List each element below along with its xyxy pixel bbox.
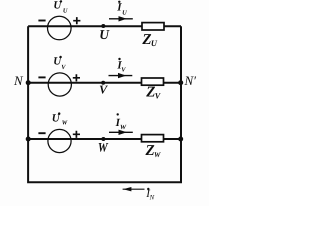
svg-text:N′: N′ bbox=[184, 73, 197, 88]
svg-text:U: U bbox=[151, 39, 158, 48]
svg-text:W: W bbox=[98, 140, 109, 155]
svg-text:W: W bbox=[154, 151, 161, 159]
svg-text:U: U bbox=[122, 10, 127, 17]
svg-text:V: V bbox=[99, 83, 108, 97]
svg-text:N: N bbox=[149, 194, 155, 201]
svg-text:V: V bbox=[61, 64, 66, 71]
svg-text:V: V bbox=[121, 67, 126, 74]
svg-text:N: N bbox=[13, 73, 24, 88]
svg-text:U: U bbox=[63, 8, 68, 15]
svg-text:U: U bbox=[99, 27, 110, 42]
